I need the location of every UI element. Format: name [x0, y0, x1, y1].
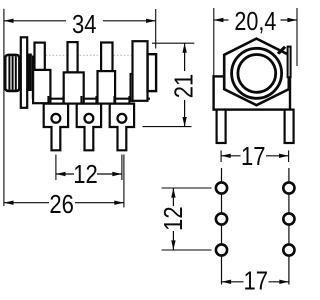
contact blade C2 — [64, 72, 84, 103]
contact finger F3 — [101, 43, 112, 72]
arrow right of 12 — [112, 172, 122, 176]
hex nut (side) — [27, 54, 32, 92]
front leg left — [217, 110, 226, 143]
extension line right of 26 — [123, 155, 125, 208]
svg-text:20,4: 20,4 — [234, 6, 276, 36]
dimension line 17 top — [221, 155, 240, 157]
dimension line 20,4 — [214, 19, 229, 21]
hole A1 — [216, 182, 227, 193]
arrow bottom 12 footprint — [171, 240, 175, 250]
svg-text:21: 21 — [169, 74, 199, 99]
extension lines for 12 (side) — [55, 155, 57, 181]
lug 2 hole — [85, 114, 94, 123]
dimension line 26 — [4, 202, 49, 204]
extension lines 12 footprint — [162, 187, 212, 189]
extension line right of 34 — [155, 9, 157, 49]
extension lines 17 top — [220, 150, 222, 162]
solder lug 1 — [44, 104, 68, 151]
arrow right 17 bottom — [279, 280, 289, 284]
extension line right of 20,4 — [296, 8, 298, 66]
solder lug 2 — [77, 104, 101, 151]
end cap — [148, 54, 157, 91]
svg-text:26: 26 — [49, 189, 74, 219]
arrow right of 26 — [114, 201, 124, 205]
extension line left of 20,4 — [213, 8, 215, 76]
hole A3 — [216, 244, 227, 255]
footprint centerline right — [288, 168, 290, 285]
arrow left of 26 — [4, 201, 14, 205]
arrow left of 20,4 — [214, 18, 224, 22]
threaded bushing — [5, 55, 19, 91]
arrow left of 12 — [56, 172, 66, 176]
front body — [214, 76, 290, 109]
lug 3 hole — [118, 114, 127, 123]
front leg right — [285, 110, 294, 143]
arrow left 17 bottom — [222, 280, 232, 284]
arrow right of 20,4 — [287, 18, 297, 22]
contact finger F2 — [68, 42, 78, 72]
hole B3 — [283, 244, 294, 255]
switch contact step — [130, 74, 133, 101]
lug 1 neck — [47, 96, 49, 104]
side view body — [32, 55, 150, 99]
hex nut front — [224, 39, 289, 106]
svg-text:17: 17 — [241, 141, 266, 171]
solder lug 3 — [110, 104, 134, 151]
dimension line 21 — [184, 43, 186, 71]
contact finger F4 — [133, 41, 148, 101]
arrow top of 21 — [182, 43, 186, 53]
thread lines — [8, 56, 10, 90]
contact blade C1 — [33, 70, 50, 103]
lug 1 hole — [52, 114, 61, 123]
hole B1 — [283, 182, 294, 193]
switch tab flag — [277, 46, 287, 55]
hole A2 — [216, 213, 227, 224]
extension line left (34/26 datum) — [3, 9, 5, 206]
bushing circle — [232, 48, 282, 98]
dimension line 17 bottom — [222, 281, 244, 283]
mounting washer — [21, 37, 27, 108]
arrow right 17 top — [279, 154, 289, 158]
arrow left 17 top — [221, 154, 231, 158]
arrow top 12 footprint — [171, 188, 175, 198]
hole B2 — [283, 213, 294, 224]
extension line bottom of 21 — [143, 126, 192, 128]
lug 3 neck — [113, 96, 115, 104]
contact finger F1 — [35, 43, 45, 70]
dimension line 12 (side) — [56, 173, 74, 175]
extension line top of 21 — [152, 42, 194, 44]
contact blade C3 — [98, 71, 116, 104]
svg-text:17: 17 — [244, 266, 269, 296]
svg-text:12: 12 — [158, 206, 188, 231]
arrow right of 34 — [146, 19, 156, 23]
svg-text:12: 12 — [73, 159, 98, 189]
switch tab — [288, 47, 291, 78]
lug 2 neck — [80, 96, 82, 104]
dimension line 34 — [4, 20, 66, 22]
footprint centerline left — [221, 168, 223, 285]
svg-text:34: 34 — [72, 9, 97, 39]
dimension line 12 footprint — [172, 188, 174, 206]
jack bore circle — [238, 55, 276, 93]
arrow bottom of 21 — [182, 117, 186, 127]
arrow left of 34 — [4, 19, 14, 23]
